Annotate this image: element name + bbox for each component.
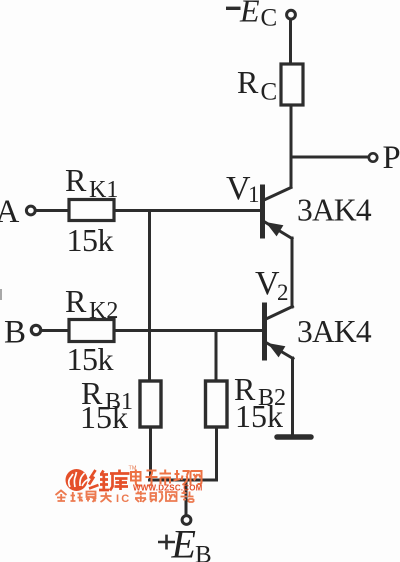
terminal B [31,325,40,334]
wire RB1 to bottom bus [149,427,152,480]
watermark slogan cai [135,491,194,503]
resistor RC [281,64,303,105]
resistor RK1 [69,200,114,221]
watermark text dian [131,470,142,486]
svg-text:A: A [0,194,20,230]
svg-text:15k: 15k [80,399,128,435]
watermark text zi [146,471,158,486]
transistor V1 base bar [260,187,265,236]
label +EB [158,522,212,562]
watermark text shi [160,470,172,486]
terminal +EB [182,516,191,525]
label RB1 [81,375,133,415]
edge artifact [0,289,2,300]
svg-text:R: R [65,283,87,319]
svg-text:E: E [239,0,260,29]
resistor RB2 [206,381,228,427]
watermark text ku [110,470,130,491]
svg-text:B: B [195,542,212,562]
svg-text:IC: IC [116,493,131,505]
label RK1 [65,162,118,203]
wire node B-row down to RB2 [215,331,218,382]
wire RK2 to V2 base [114,329,264,332]
transistor V2 emitter arrow [268,343,286,357]
wire RK1 to V1 base [114,209,262,212]
wire RC to collector rail [290,105,293,187]
svg-text:C: C [261,5,278,32]
watermark text wei [89,470,109,490]
wire bottom bus [150,479,217,482]
label RC [237,64,277,106]
transistor V1 emitter [264,222,292,239]
transistor V1 collector [264,188,291,201]
watermark text chang [174,470,189,485]
watermark text wang [191,471,202,485]
terminal A [26,206,35,215]
wire B to RK2 [42,329,70,332]
ground [277,434,311,440]
wire V1 emitter to V2 collector [291,238,294,307]
svg-text:1: 1 [248,182,260,207]
wire A to RK1 [36,209,69,212]
transistor V2 collector [266,307,293,320]
label RB2 [234,371,286,411]
wire top supply to RC [289,20,292,64]
svg-text:15k: 15k [67,222,114,258]
terminal P [369,153,377,161]
svg-text:C: C [261,79,278,106]
wire output to P [291,156,368,159]
wire RB2 to bottom bus [215,427,218,480]
svg-text:K1: K1 [89,177,118,203]
transistor V2 emitter [266,343,293,359]
wire V2 emitter to ground [291,358,294,434]
label V2 [255,265,289,305]
svg-text:R: R [237,64,259,100]
resistor RK2 [69,320,114,342]
transistor V1 emitter arrow [266,222,284,236]
svg-text:R: R [65,162,87,198]
label RK2 [65,283,118,324]
svg-text:3AK4: 3AK4 [297,314,372,349]
wire node A-row down to RB1 [148,211,151,382]
svg-text:15k: 15k [67,341,114,377]
terminal -EC [287,10,296,19]
resistor RB1 [140,381,161,427]
svg-text:B: B [4,315,26,351]
transistor V2 base bar [262,305,267,358]
watermark slogan quan [56,491,112,503]
svg-text:2: 2 [277,280,289,305]
svg-text:3AK4: 3AK4 [297,193,372,228]
label V1 [226,170,260,207]
label -EC [226,0,277,32]
svg-text:P: P [383,140,400,176]
watermark logo circle [66,469,89,491]
wire bus to +EB terminal [185,480,188,515]
svg-text:15k: 15k [235,398,283,434]
svg-text:E: E [171,522,196,562]
svg-text:K2: K2 [89,298,118,324]
